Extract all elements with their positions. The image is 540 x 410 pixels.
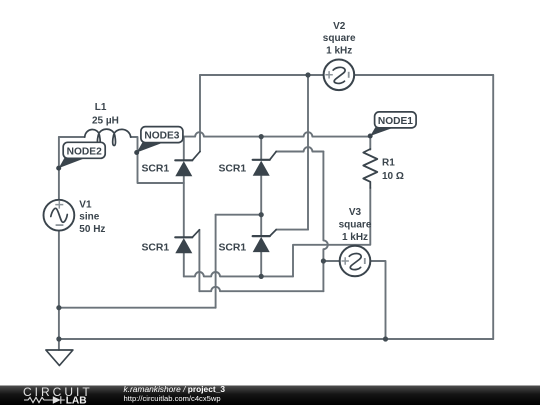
wire L1 left lead — [59, 136, 85, 138]
wire NODE3 anchor down and right to SCR left column — [138, 153, 184, 184]
wire top of left SCR column to top rail — [183, 137, 185, 161]
svg-text:NODE2: NODE2 — [67, 146, 102, 157]
junction dot mid right column — [259, 212, 264, 217]
wire V1 top lead up to L1 corner — [58, 137, 60, 200]
svg-text:R1: R1 — [382, 158, 395, 169]
wire bottom-right SCR anode lead down — [260, 252, 262, 276]
wire x=323.4 up from y=289 to V3 anchor — [322, 261, 324, 291]
footer bar — [0, 384, 540, 407]
wire V1 return vertical x=215.6 — [215, 215, 217, 308]
wire V3 left lead — [323, 260, 340, 262]
svg-text:NODE1: NODE1 — [378, 116, 413, 127]
junction dot V3 left — [321, 258, 326, 263]
voltage source V3 — [340, 246, 371, 277]
wire right edge vertical x=493.2 — [492, 75, 494, 339]
svg-text:SCR1: SCR1 — [141, 164, 169, 175]
wire x=308 from V2 rail down to bottom-right gate — [307, 75, 309, 230]
inductor L1 — [85, 129, 131, 145]
svg-text:NODE3: NODE3 — [144, 131, 179, 142]
svg-text:SCR1: SCR1 — [218, 243, 246, 254]
wire bottom-left SCR gate down — [198, 230, 200, 291]
wire top-right SCR top lead — [260, 137, 262, 160]
junction dot bottom right column — [259, 274, 264, 279]
wire V2 gate rail top — [200, 74, 324, 76]
wire R1 top lead — [369, 137, 371, 150]
svg-text:50 Hz: 50 Hz — [79, 224, 105, 235]
svg-text:square: square — [339, 220, 372, 231]
wire left column between SCRs — [183, 176, 185, 237]
junction dot V1 ground rail — [56, 336, 61, 341]
wire bottom-right SCR gate to x=308 — [276, 229, 308, 231]
svg-text:25 µH: 25 µH — [92, 116, 119, 127]
junction dot top rail / right column — [259, 134, 264, 139]
junction dot V1 return — [56, 305, 61, 310]
svg-text:1 kHz: 1 kHz — [342, 232, 368, 243]
thyristor SCR1 top-left bar — [175, 159, 192, 161]
wire V1 bottom lead to ground — [58, 231, 60, 350]
svg-text:SCR1: SCR1 — [218, 164, 246, 175]
thyristor SCR1 top-right bar — [253, 159, 270, 161]
logo diode glyph — [53, 396, 61, 403]
junction dot bottom rail / V3 — [383, 336, 388, 341]
wire V1 return: y=214.7 from x=215.6 to right column — [216, 214, 262, 216]
wire x=323.4 down from gate wire, hop over y=244.8, to V3 anchor — [323, 152, 327, 262]
svg-text:10 Ω: 10 Ω — [382, 171, 404, 182]
svg-text:SCR1: SCR1 — [141, 243, 169, 254]
wire top-left SCR gate up to V2 rail — [199, 75, 201, 152]
logo resistor glyph — [24, 397, 54, 402]
thyristor SCR1 top-right gate diagonal — [270, 152, 277, 160]
voltage source V1 — [44, 200, 75, 231]
thyristor SCR1 top-right triangle — [253, 161, 270, 176]
svg-text:http://circuitlab.com/c4cx5wp: http://circuitlab.com/c4cx5wp — [124, 394, 221, 403]
wire bridge bus up and right to R1 bottom — [293, 188, 370, 276]
thyristor SCR1 top-left triangle — [175, 161, 192, 176]
wire bottom bridge bus y=276.4 with hops at x=199.4 and x=215.6 — [184, 272, 293, 276]
junction dot at V2 gate rail — [305, 72, 310, 77]
thyristor SCR1 bottom-left gate diagonal — [192, 230, 199, 238]
wire bottom-left SCR anode lead down — [183, 253, 185, 276]
svg-text:L1: L1 — [95, 102, 107, 113]
node flag NODE3 — [134, 127, 183, 155]
wire top-right SCR gate wire y=151.5 with hop at x=308 — [276, 147, 323, 151]
wire V1 return bottom y=306.8 — [59, 307, 216, 309]
svg-text:sine: sine — [79, 212, 99, 223]
wire gate of bottom-left SCR to V3: y=289 with hop at x=215.6 — [199, 287, 323, 291]
svg-text:V2: V2 — [333, 21, 346, 32]
thyristor SCR1 bottom-left triangle — [175, 238, 192, 253]
thyristor SCR1 bottom-right bar — [253, 235, 270, 237]
svg-text:LAB: LAB — [66, 395, 87, 405]
thyristor SCR1 bottom-left bar — [175, 236, 192, 238]
ground symbol — [46, 350, 73, 366]
wire bottom rail y=339 — [59, 338, 493, 340]
thyristor SCR1 bottom-right triangle — [253, 237, 270, 252]
svg-text:k.ramankishore / project_3: k.ramankishore / project_3 — [124, 384, 226, 394]
wire V2 right lead — [354, 74, 493, 76]
wire L1 right lead to NODE3 corner — [131, 137, 138, 153]
svg-text:V3: V3 — [349, 207, 362, 218]
resistor R1 zigzag — [363, 149, 377, 188]
thyristor SCR1 top-left gate diagonal — [192, 152, 200, 161]
wire top rail y=136.6 with hops at x=199.5 and x=308 — [184, 132, 370, 136]
node flag NODE2 — [56, 142, 105, 170]
voltage source V2 — [324, 60, 355, 91]
wire V3 right lead down to bottom rail — [370, 261, 385, 339]
wire right column between SCRs — [260, 176, 262, 236]
node flag NODE1 — [368, 112, 416, 139]
svg-text:square: square — [323, 33, 356, 44]
svg-text:1 kHz: 1 kHz — [326, 46, 352, 57]
svg-text:V1: V1 — [79, 199, 92, 210]
thyristor SCR1 bottom-right gate diagonal — [270, 230, 277, 237]
